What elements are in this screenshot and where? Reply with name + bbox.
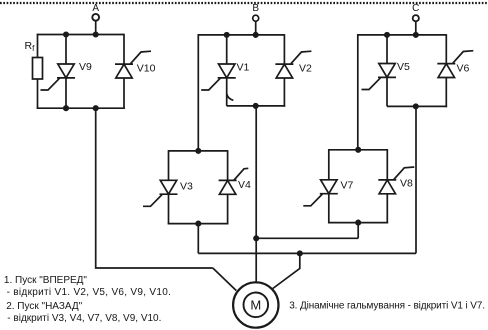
- node B terminal: [252, 3, 259, 21]
- svg-text:- відкриті V3, V4, V7, V8, V9,: - відкриті V3, V4, V7, V8, V9, V10.: [7, 313, 161, 324]
- wire phase B top bus: [198, 34, 285, 36]
- thyristor V9: [41, 61, 93, 90]
- wire V3V4 bottom bus: [168, 223, 229, 225]
- wire phase A top bus: [37, 34, 124, 36]
- svg-text:V6: V6: [457, 63, 470, 75]
- wire V6 branch: [445, 34, 447, 107]
- svg-text:М: М: [250, 298, 261, 313]
- svg-text:V8: V8: [400, 177, 413, 189]
- svg-text:V7: V7: [341, 179, 354, 191]
- junction dot A bus top center: [94, 32, 98, 36]
- thyristor V10: [115, 51, 156, 78]
- wire V7V8 top bus: [329, 149, 388, 151]
- wire V4 branch: [227, 150, 229, 224]
- junction dot V3V4 top: [196, 149, 200, 153]
- svg-text:2. Пуск "НАЗАД": 2. Пуск "НАЗАД": [6, 301, 82, 312]
- resistor Rf: [25, 40, 43, 79]
- svg-text:V1: V1: [237, 62, 250, 74]
- svg-text:V4: V4: [238, 179, 251, 191]
- thyristor V3: [143, 180, 193, 206]
- junction dot B bus bottom center: [254, 104, 258, 108]
- thyristor V7: [303, 179, 353, 206]
- thyristor V6: [437, 51, 473, 78]
- wire phase A descent to motor lead: [96, 108, 213, 268]
- junction dot V7V8 top: [356, 148, 360, 152]
- wire V1 branch: [226, 35, 228, 106]
- thyristor V2: [275, 51, 312, 78]
- node A terminal: [92, 3, 99, 21]
- svg-text:V2: V2: [299, 63, 312, 75]
- wire phase B centre descent to motor: [255, 106, 257, 284]
- junction dot C bus bottom center: [414, 104, 418, 108]
- wire V2 branch: [283, 34, 285, 107]
- node C terminal: [412, 3, 419, 22]
- svg-text:V5: V5: [397, 61, 410, 73]
- thyristor V4: [219, 168, 251, 194]
- svg-text:1. Пуск "ВПЕРЕД": 1. Пуск "ВПЕРЕД": [4, 275, 88, 286]
- wire B stub: [255, 21, 257, 35]
- wire motor left lead diagonal: [213, 268, 237, 291]
- wire V7V8 bottom bus: [328, 222, 388, 224]
- wire V3V4 top bus: [169, 150, 228, 152]
- junction dot A bus top V9: [64, 32, 68, 36]
- junction dot B bus top V1: [225, 33, 229, 37]
- thyristor V5: [362, 61, 411, 90]
- wire phase B left rail down to V3V4: [197, 34, 199, 151]
- wire V3V4 descent: [197, 224, 199, 254]
- svg-text:- відкриті V1. V2, V5, V6, V9,: - відкриті V1. V2, V5, V6, V9, V10.: [7, 287, 172, 298]
- wire phase C top bus: [357, 34, 446, 36]
- wire V8 branch: [386, 149, 388, 223]
- junction dot A bus bottom center: [94, 106, 98, 110]
- svg-text:V3: V3: [180, 180, 193, 192]
- junction dot A bus bottom V9: [64, 106, 68, 110]
- wire V9 branch: [65, 35, 67, 109]
- svg-text:A: A: [92, 3, 99, 14]
- junction dot V7V8 bottom: [356, 220, 360, 224]
- svg-text:V9: V9: [79, 61, 92, 73]
- junction dot B bus top center: [254, 33, 258, 37]
- junction dot bus2 motor tap: [298, 251, 302, 255]
- wire V3 branch: [168, 150, 170, 224]
- wire phase C descent to bus2: [415, 106, 417, 253]
- wire A stub: [95, 21, 97, 35]
- wire left rail lower (resistor to bottom bus): [37, 79, 39, 109]
- thyristor V8: [378, 167, 414, 194]
- wire bus2 V3V4 to C: [198, 252, 416, 254]
- svg-text:3. Дінамічне гальмування - від: 3. Дінамічне гальмування - відкриті V1 і…: [289, 301, 485, 312]
- wire phase B bottom bus: [227, 105, 286, 107]
- V1 cathode hook mark: [227, 94, 234, 101]
- wire V7 branch: [328, 149, 330, 223]
- wire motor right lead: [273, 253, 300, 288]
- thyristor V1: [201, 62, 249, 91]
- wire phase C bottom bus: [387, 105, 447, 107]
- svg-text:Rf: Rf: [25, 40, 36, 53]
- wire phase C left rail down to V7V8: [357, 34, 359, 150]
- junction dot descent / bus1: [254, 236, 258, 240]
- wire V7V8 descent to bus1: [357, 223, 359, 239]
- wire phase A bottom bus: [37, 107, 125, 109]
- junction dot V3V4 bottom: [196, 221, 200, 225]
- motor M: [233, 282, 278, 327]
- wire left rail upper (to resistor): [37, 34, 39, 58]
- svg-text:B: B: [252, 3, 259, 14]
- wire bus1 B to V7V8: [256, 237, 358, 239]
- wire V5 branch: [386, 35, 388, 107]
- svg-text:C: C: [412, 3, 419, 14]
- junction dot C bus top center: [414, 33, 418, 37]
- svg-text:V10: V10: [137, 63, 156, 75]
- wire C stub: [415, 21, 417, 35]
- junction dot C bus top V5: [385, 33, 389, 37]
- wire V10 branch: [123, 34, 125, 109]
